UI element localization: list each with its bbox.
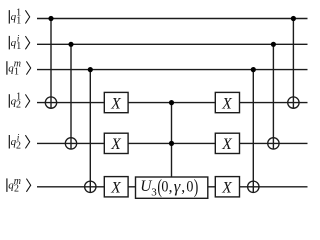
- X gate box right on q2^1: [215, 92, 239, 112]
- wire q2^1: [37, 102, 308, 104]
- svg-text:3: 3: [151, 186, 157, 198]
- CNOT 2 target on q2^i: [65, 138, 76, 149]
- CNOT 4 control dot on q1^m: [251, 67, 256, 72]
- svg-text:X: X: [110, 180, 121, 197]
- wire q1^1: [37, 18, 308, 20]
- CNOT 1 control dot on q1^1: [48, 16, 53, 21]
- ket label |q2^m>: [7, 176, 31, 195]
- CNOT 3 target on q2^m: [85, 181, 96, 192]
- wire q1^i: [37, 43, 308, 45]
- svg-text:X: X: [110, 95, 121, 112]
- ket label |q2^i>: [9, 133, 29, 151]
- CNOT 5 vertical wire (q1^i -> q2^i): [272, 44, 274, 149]
- CNOT 3 control dot on q1^m: [88, 67, 93, 72]
- svg-text:X: X: [221, 180, 232, 197]
- svg-text:1: 1: [16, 41, 21, 52]
- svg-text:0: 0: [161, 179, 168, 196]
- X gate box right on q2^i: [215, 133, 239, 153]
- svg-text:X: X: [110, 136, 121, 153]
- X gate box right on q2^m: [215, 177, 239, 197]
- svg-text:X: X: [221, 95, 232, 112]
- U3(0,gamma,0) gate box on q2^m: [136, 177, 208, 198]
- CNOT 3 vertical wire (q1^m -> q2^m): [89, 70, 91, 193]
- CNOT 2 control dot on q1^i: [68, 42, 73, 47]
- CNOT 2 vertical wire (q1^i -> q2^i): [70, 44, 72, 149]
- ket label |q1^1>: [9, 7, 29, 26]
- CNOT 6 vertical wire (q1^1 -> q2^1): [292, 19, 294, 109]
- CNOT 4 vertical wire (q1^m -> q2^m): [252, 70, 254, 193]
- wire q1^m: [37, 69, 308, 71]
- svg-text:X: X: [221, 136, 232, 153]
- CNOT 5 control dot on q1^i: [271, 42, 276, 47]
- svg-text:,: ,: [181, 178, 185, 195]
- CNOT 1 vertical wire (q1^1 -> q2^1): [50, 19, 52, 109]
- svg-text:1: 1: [14, 67, 19, 78]
- svg-text:): ): [194, 175, 199, 197]
- wire q2^i: [37, 142, 308, 144]
- controlled-U3 vertical wire: [171, 103, 173, 177]
- CNOT 1 target on q2^1: [45, 97, 56, 108]
- control dot on q2^1: [169, 100, 174, 105]
- control dot on q2^i: [169, 141, 174, 146]
- wire q2^m: [37, 186, 308, 188]
- svg-text:2: 2: [14, 184, 19, 195]
- svg-text:γ: γ: [174, 177, 181, 196]
- svg-text:0: 0: [186, 179, 193, 196]
- CNOT 6 control dot on q1^1: [291, 16, 296, 21]
- svg-text:1: 1: [16, 15, 21, 26]
- CNOT 5 target on q2^i: [268, 138, 279, 149]
- svg-text:2: 2: [16, 100, 21, 111]
- ket label |q1^m>: [7, 59, 31, 78]
- svg-text:2: 2: [16, 140, 21, 151]
- X gate box left on q2^1: [104, 92, 128, 112]
- X gate box left on q2^i: [104, 133, 128, 153]
- CNOT 4 target on q2^m: [248, 181, 259, 192]
- X gate box left on q2^m: [104, 177, 128, 197]
- ket label |q1^i>: [9, 34, 29, 52]
- svg-text:,: ,: [169, 178, 173, 195]
- CNOT 6 target on q2^1: [288, 97, 299, 108]
- ket label |q2^1>: [9, 91, 29, 110]
